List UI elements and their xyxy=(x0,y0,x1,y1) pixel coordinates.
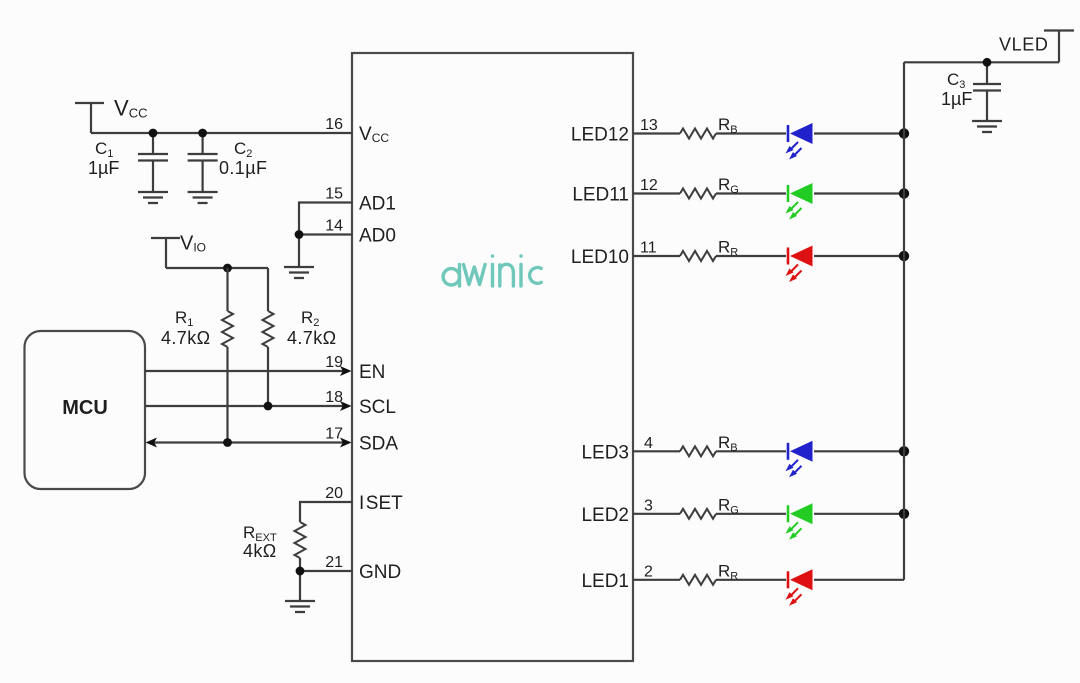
label REXT value xyxy=(243,523,277,561)
svg-text:EN: EN xyxy=(359,362,385,383)
awinic logo xyxy=(443,256,541,286)
svg-text:VLED: VLED xyxy=(999,35,1048,55)
svg-text:RR: RR xyxy=(718,561,738,582)
node junction row3 bus xyxy=(899,509,909,519)
label RB row13 xyxy=(718,115,738,136)
pin name LED10 xyxy=(571,247,629,268)
net label VLED xyxy=(999,35,1048,55)
svg-text:1µF: 1µF xyxy=(88,158,119,178)
svg-text:SDA: SDA xyxy=(359,434,398,455)
LED red D1 xyxy=(786,569,813,606)
node junction C3 on VLED rail xyxy=(983,58,992,67)
power symbol VLED xyxy=(1044,31,1074,63)
pin name EN xyxy=(359,362,385,383)
svg-text:12: 12 xyxy=(640,177,658,194)
power symbol VCC xyxy=(75,103,104,133)
pin number 20 xyxy=(325,485,343,502)
pin number 13 xyxy=(640,117,658,134)
LED row 2: wire, resistor RR, red LED xyxy=(633,579,904,581)
ground for C2 xyxy=(188,192,218,203)
wire SDA xyxy=(146,438,352,448)
svg-text:21: 21 xyxy=(325,554,343,571)
pin number 12 xyxy=(640,177,658,194)
svg-text:RG: RG xyxy=(718,495,739,516)
wire GND pin 21 xyxy=(300,571,352,601)
svg-text:15: 15 xyxy=(325,186,343,203)
label R2 value xyxy=(287,308,336,348)
LED row 11: wire, resistor RR, red LED xyxy=(633,255,904,257)
pin name LED11 xyxy=(572,185,629,206)
pin name ISET xyxy=(359,493,403,514)
svg-text:11: 11 xyxy=(640,240,657,257)
net label VIO xyxy=(180,233,206,255)
pin name LED2 xyxy=(581,505,629,526)
svg-text:LED2: LED2 xyxy=(581,505,629,526)
wire VLED bus vertical xyxy=(903,62,905,580)
label C2 value xyxy=(219,139,267,178)
resistor RG row12 xyxy=(680,189,716,199)
label RB row4 xyxy=(718,433,738,454)
svg-text:20: 20 xyxy=(325,485,343,502)
capacitor C3 xyxy=(973,62,1001,121)
wire VIO rail xyxy=(166,267,268,269)
svg-text:C1: C1 xyxy=(95,139,113,160)
ground for GND pin xyxy=(285,601,315,612)
node junction row11 bus xyxy=(899,251,909,261)
node junction row13 bus xyxy=(899,128,909,138)
svg-text:19: 19 xyxy=(325,354,343,371)
resistor REXT xyxy=(295,522,306,571)
node junction row4 bus xyxy=(899,446,909,456)
svg-text:R2: R2 xyxy=(301,308,319,329)
LED green D11 xyxy=(786,183,813,220)
svg-text:VIO: VIO xyxy=(180,233,206,255)
svg-text:0.1µF: 0.1µF xyxy=(219,158,267,178)
LED blue D3 xyxy=(786,441,813,478)
pin number 17 xyxy=(325,426,343,443)
pin number 21 xyxy=(325,554,343,571)
svg-text:RG: RG xyxy=(718,175,739,196)
svg-text:17: 17 xyxy=(325,426,343,443)
pin number 19 xyxy=(325,354,343,371)
svg-text:MCU: MCU xyxy=(62,397,108,419)
wire ISET to pin 20 xyxy=(300,502,352,522)
label RG row3 xyxy=(718,495,739,516)
svg-text:RR: RR xyxy=(718,238,738,259)
pin number 14 xyxy=(325,218,343,235)
label R1 value xyxy=(161,308,210,348)
resistor R2 xyxy=(263,268,274,406)
svg-text:LED12: LED12 xyxy=(571,125,629,146)
node junction row12 bus xyxy=(899,188,909,198)
svg-text:4.7kΩ: 4.7kΩ xyxy=(161,328,210,348)
svg-text:18: 18 xyxy=(325,389,343,406)
pin number 11 xyxy=(640,240,657,257)
resistor RB row13 xyxy=(680,129,716,139)
svg-text:SCL: SCL xyxy=(359,397,396,418)
pin name LED1 xyxy=(581,571,629,592)
wire AD1 to pin 15 xyxy=(299,203,352,235)
svg-text:LED3: LED3 xyxy=(581,442,629,463)
wire VCC rail to pin 16 xyxy=(91,132,352,134)
svg-text:2: 2 xyxy=(644,563,653,580)
node junction C2 on VCC rail xyxy=(198,129,207,138)
pin number 2 xyxy=(644,563,653,580)
LED red D10 xyxy=(786,246,813,283)
svg-text:AD0: AD0 xyxy=(359,226,396,247)
capacitor C2 xyxy=(188,133,218,192)
resistor R1 xyxy=(222,268,233,443)
MCU block xyxy=(25,331,146,489)
node junction REXT bottom xyxy=(296,567,305,576)
svg-text:16: 16 xyxy=(325,116,343,133)
LED row 4: wire, resistor RB, blue LED xyxy=(633,450,904,452)
wire EN xyxy=(145,366,352,376)
svg-text:C3: C3 xyxy=(947,70,965,91)
svg-text:LED1: LED1 xyxy=(581,571,629,592)
node junction R1 bottom on SDA xyxy=(223,438,232,447)
label RR row11 xyxy=(718,238,738,259)
svg-text:LED10: LED10 xyxy=(571,247,629,268)
resistor RR row2 xyxy=(680,575,716,585)
svg-text:ISET: ISET xyxy=(359,493,403,514)
resistor RB row4 xyxy=(680,446,716,456)
pin name GND xyxy=(359,562,401,583)
svg-text:GND: GND xyxy=(359,562,401,583)
svg-text:4kΩ: 4kΩ xyxy=(243,541,277,561)
label RR row2 xyxy=(718,561,738,582)
LED row 3: wire, resistor RG, green LED xyxy=(633,513,904,515)
pin name SCL xyxy=(359,397,396,418)
svg-text:4.7kΩ: 4.7kΩ xyxy=(287,328,336,348)
LED row 12: wire, resistor RG, green LED xyxy=(633,192,904,194)
ground for C1 xyxy=(138,192,168,203)
svg-text:4: 4 xyxy=(644,435,653,452)
node junction R2 bottom on SCL xyxy=(264,402,273,411)
IC U1 body xyxy=(352,53,633,661)
pin name VCC xyxy=(359,124,389,145)
svg-text:3: 3 xyxy=(644,497,653,514)
pin number 3 xyxy=(644,497,653,514)
label C3 value xyxy=(941,70,972,109)
wire SCL xyxy=(145,401,352,411)
svg-text:RB: RB xyxy=(718,115,738,136)
resistor RG row3 xyxy=(680,509,716,519)
pin name SDA xyxy=(359,434,398,455)
pin name AD0 xyxy=(359,226,396,247)
LED green D2 xyxy=(786,503,813,540)
resistor RR row11 xyxy=(680,251,716,261)
pin name AD1 xyxy=(359,194,396,215)
wire AD0 to pin 14 xyxy=(299,235,352,268)
node junction AD0 xyxy=(295,230,304,239)
node junction C1 on VCC rail xyxy=(149,129,158,138)
wire VLED top rail xyxy=(904,61,1059,63)
svg-text:1µF: 1µF xyxy=(941,89,972,109)
label RG row12 xyxy=(718,175,739,196)
svg-text:13: 13 xyxy=(640,117,658,134)
svg-text:AD1: AD1 xyxy=(359,194,396,215)
LED row 13: wire, resistor RB, blue LED xyxy=(633,132,904,134)
pin number 18 xyxy=(325,389,343,406)
pin number 15 xyxy=(325,186,343,203)
pin number 4 xyxy=(644,435,653,452)
capacitor C1 xyxy=(138,133,168,192)
svg-text:C2: C2 xyxy=(234,139,252,160)
svg-text:VCC: VCC xyxy=(114,96,147,121)
svg-text:LED11: LED11 xyxy=(572,185,629,206)
svg-text:14: 14 xyxy=(325,218,343,235)
node junction R1 top xyxy=(223,264,232,273)
ground for C3 xyxy=(972,121,1002,132)
pin number 16 xyxy=(325,116,343,133)
LED blue D12 xyxy=(786,123,813,160)
pin name LED12 xyxy=(571,125,629,146)
label C1 value xyxy=(88,139,119,178)
ground for AD0/AD1 xyxy=(284,267,314,278)
pin name LED3 xyxy=(581,442,629,463)
power symbol VIO xyxy=(151,238,180,268)
net label VCC xyxy=(114,96,147,121)
svg-text:R1: R1 xyxy=(175,308,193,329)
svg-text:RB: RB xyxy=(718,433,738,454)
